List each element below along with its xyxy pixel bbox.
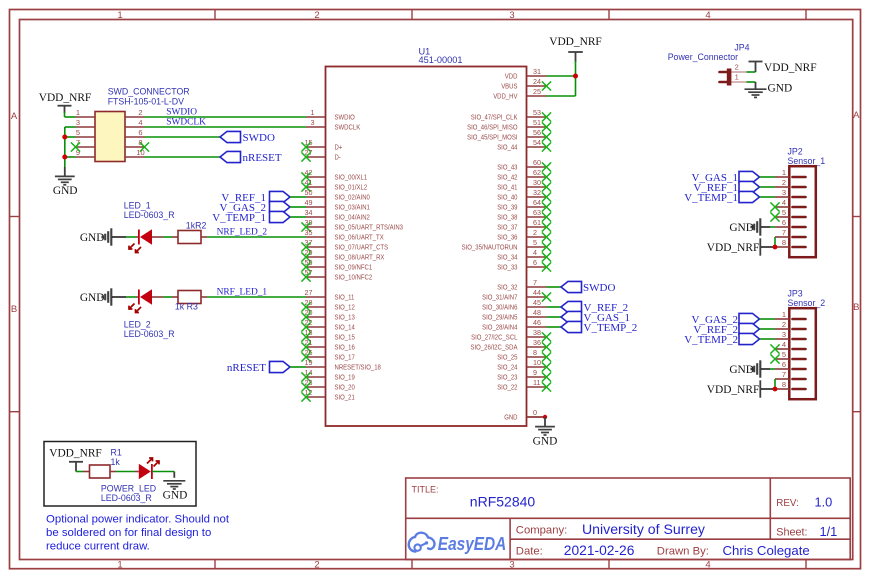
svg-text:SIO_34: SIO_34 (497, 253, 517, 262)
svg-text:1: 1 (76, 108, 80, 117)
label R1 (111, 447, 122, 457)
svg-text:NRESET/SIO_18: NRESET/SIO_18 (335, 363, 381, 372)
wire GND JP2 pin6 (770, 226, 775, 228)
label 1k (R1) (111, 457, 121, 467)
svg-text:31: 31 (533, 67, 541, 76)
svg-text:SIO_07/UART_CTS: SIO_07/UART_CTS (335, 243, 389, 252)
svg-text:36: 36 (533, 338, 541, 347)
U1 pin 14 SIO_19 (301, 368, 354, 382)
U1 pin 50 SIO_02/AIN0 (305, 188, 370, 202)
wire JP4 pin1 to GND (747, 81, 756, 83)
net label NRF_LED_2 (217, 227, 268, 237)
svg-text:SIO_45/SPI_MOSI: SIO_45/SPI_MOSI (467, 133, 517, 142)
net flag nRESET (to U1 pin 19) (227, 361, 290, 374)
svg-text:SIO_39: SIO_39 (497, 203, 517, 212)
net flag SWDO (left) (220, 131, 275, 144)
svg-text:SIO_06/UART_TX: SIO_06/UART_TX (335, 233, 384, 242)
svg-text:1k: 1k (111, 457, 121, 467)
svg-text:SIO_28/AIN4: SIO_28/AIN4 (482, 323, 517, 332)
net flag V_TEMP_1 (JP2 pin3) (684, 191, 759, 204)
svg-text:2021-02-26: 2021-02-26 (564, 543, 635, 558)
svg-text:EasyEDA: EasyEDA (438, 533, 507, 554)
U1 pin 4 SIO_34 (497, 248, 551, 262)
net flag V_TEMP_1 (to U1 pin 34) (212, 211, 290, 224)
frame row letters left (11, 111, 18, 315)
wire VDD_NRF vertical (U1) (575, 61, 577, 96)
svg-text:NRF_LED_1: NRF_LED_1 (217, 287, 268, 297)
svg-text:4: 4 (705, 10, 710, 21)
REV value 1.0 (815, 495, 833, 510)
wire JP3 pin7 to pin8 (774, 379, 776, 389)
label JP4 (734, 43, 749, 53)
U1 pin 36 SIO_26/I2C_SDA (471, 338, 552, 352)
label LED-0603_R (POWER_LED) (101, 493, 152, 503)
svg-text:35: 35 (305, 228, 313, 237)
wire SWD pin6 to SWDO flag (145, 136, 221, 138)
junction VDD_NRF JP2 (773, 245, 778, 250)
svg-text:2: 2 (314, 10, 319, 21)
svg-text:64: 64 (533, 198, 541, 207)
svg-text:10: 10 (533, 358, 541, 367)
svg-text:GND: GND (533, 436, 558, 448)
svg-text:GND: GND (163, 490, 188, 502)
svg-text:54: 54 (533, 138, 541, 147)
svg-text:5: 5 (782, 208, 786, 217)
svg-text:3: 3 (509, 10, 514, 21)
svg-text:SIO_40: SIO_40 (497, 193, 517, 202)
wire net NRF_LED_2 (207, 236, 306, 238)
svg-text:46: 46 (533, 318, 541, 327)
svg-text:FTSH-105-01-L-DV: FTSH-105-01-L-DV (108, 96, 184, 106)
REV label (776, 498, 799, 509)
net flag V_GAS_2 (JP3 pin1) (692, 313, 760, 326)
U1 pin 42 SIO_00/XL1 (301, 168, 367, 182)
svg-text:SIO_24: SIO_24 (497, 363, 517, 372)
svg-text:10: 10 (136, 148, 144, 157)
svg-text:1: 1 (782, 168, 786, 177)
svg-text:7: 7 (782, 228, 786, 237)
svg-text:University of Surrey: University of Surrey (582, 521, 706, 537)
connector SWD_CONNECTOR FTSH-105-01-L-DV (76, 108, 145, 161)
wire to SWD pin5 (65, 136, 76, 138)
U1 pin 9 SIO_23 (497, 368, 551, 382)
svg-text:2: 2 (314, 560, 319, 571)
resistor R3 1k (172, 291, 207, 304)
svg-text:7: 7 (533, 278, 537, 287)
frame column ticks top (215, 10, 806, 20)
no-connect JP2 pin4 (770, 202, 779, 211)
wire V_TEMP_1 JP2 (760, 196, 776, 198)
LED LED_1 LED-0603_R (129, 229, 163, 252)
label Sensor_2 (788, 298, 826, 308)
svg-text:25: 25 (533, 87, 541, 96)
svg-text:6: 6 (138, 128, 142, 137)
title value nRF52840 (470, 494, 536, 510)
svg-text:56: 56 (533, 128, 541, 137)
svg-text:45: 45 (533, 298, 541, 307)
EasyEDA logo (409, 533, 507, 554)
wire net NRF_LED_1 (207, 296, 306, 298)
svg-text:SIO_19: SIO_19 (335, 373, 355, 382)
svg-text:24: 24 (533, 77, 541, 86)
svg-text:V_TEMP_2: V_TEMP_2 (684, 334, 738, 346)
svg-text:32: 32 (533, 188, 541, 197)
U1 pin 18 SIO_15 (301, 328, 354, 342)
svg-text:SWDO: SWDO (583, 282, 615, 294)
U1 pin 51 SIO_46/SPI_MISO (467, 118, 551, 132)
wire nRESET (290, 366, 306, 368)
svg-text:V_TEMP_1: V_TEMP_1 (212, 212, 266, 224)
svg-text:NRF_LED_2: NRF_LED_2 (217, 227, 268, 237)
svg-text:5: 5 (782, 350, 786, 359)
wire V_GAS_1 JP2 (760, 176, 776, 178)
svg-text:SIO_32: SIO_32 (497, 283, 517, 292)
wire V_GAS_2 JP3 (760, 318, 776, 320)
wire to SWD pin9 (65, 156, 76, 158)
power flag VDD_NRF (SWD) (39, 92, 92, 113)
LED POWER_LED LED-0603_R (135, 458, 159, 479)
wire VDD_HV pin25 (547, 95, 576, 97)
U1 pin 1 SWDIO (306, 108, 355, 122)
svg-text:SIO_29/AIN5: SIO_29/AIN5 (482, 313, 517, 322)
svg-text:34: 34 (305, 208, 313, 217)
U1 pin 37 SIO_07/UART_CTS (301, 238, 388, 252)
svg-text:GND: GND (729, 222, 754, 234)
Company value University of Surrey (582, 521, 706, 537)
wire V_GAS_1 (U1 pin 48) (547, 316, 562, 318)
svg-text:1kR2: 1kR2 (186, 220, 207, 230)
note text line 2 (46, 527, 211, 539)
svg-text:SIO_33: SIO_33 (497, 263, 517, 272)
power flag VDD_NRF (JP2) (707, 238, 775, 255)
net label NRF_LED_1 (217, 287, 268, 297)
svg-text:1: 1 (311, 108, 315, 117)
Date label (516, 546, 543, 558)
U1 pin 3 SWDCLK (306, 118, 360, 132)
U1 pin 53 SIO_47/SPI_CLK (471, 108, 551, 122)
svg-text:62: 62 (533, 168, 541, 177)
svg-text:VDD_NRF: VDD_NRF (39, 92, 92, 104)
net label SWDIO (166, 107, 197, 117)
U1 pin 26 SIO_17 (301, 348, 354, 362)
svg-text:SIO_46/SPI_MISO: SIO_46/SPI_MISO (467, 123, 518, 132)
svg-text:38: 38 (533, 328, 541, 337)
U1 pin 19 NRESET/SIO_18 (305, 358, 381, 372)
U1 pin 56 SIO_45/SPI_MOSI (467, 128, 551, 142)
U1 pin 12 SIO_21 (301, 388, 354, 402)
svg-text:1/1: 1/1 (820, 524, 838, 539)
svg-text:SIO_47/SPI_CLK: SIO_47/SPI_CLK (471, 113, 518, 122)
svg-text:1: 1 (117, 560, 122, 571)
svg-text:SWDIO: SWDIO (335, 113, 355, 122)
power flag VDD_NRF (JP4) (749, 62, 817, 75)
junction U1 GND (543, 415, 547, 419)
net flag V_TEMP_2 (right of U1) (561, 321, 637, 334)
no-connect SWD pin8 (140, 142, 149, 151)
frame row ticks right (853, 217, 861, 412)
power flag VDD_NRF (JP3) (707, 380, 775, 397)
wire V_TEMP_2 (U1 pin 46) (547, 326, 562, 328)
svg-text:0: 0 (533, 408, 537, 417)
U1 pin 28 SIO_12 (301, 298, 354, 312)
label JP3 (788, 289, 803, 299)
svg-text:SIO_44: SIO_44 (497, 143, 517, 152)
svg-text:GND: GND (53, 185, 78, 197)
svg-text:61: 61 (533, 218, 541, 227)
ground GND (JP2) (729, 218, 770, 235)
svg-text:2: 2 (138, 108, 142, 117)
svg-text:LED-0603_R: LED-0603_R (101, 493, 152, 503)
svg-text:4: 4 (705, 560, 710, 571)
svg-text:GND: GND (768, 82, 793, 94)
svg-text:3: 3 (782, 330, 786, 339)
wire SWDO (U1 pin 7) (547, 286, 562, 288)
svg-text:SIO_43: SIO_43 (497, 163, 517, 172)
svg-text:nRESET: nRESET (227, 362, 266, 374)
label FTSH-105-01-L-DV (108, 96, 184, 106)
U1 pin 8 SIO_25 (497, 348, 551, 362)
U1 pin 7 SIO_32 (497, 278, 546, 292)
ground GND (note box) (163, 481, 188, 502)
svg-text:4: 4 (782, 340, 786, 349)
svg-text:TITLE:: TITLE: (412, 485, 439, 495)
wire SWD left bus vertical (64, 127, 66, 167)
svg-text:VBUS: VBUS (501, 82, 517, 91)
ground GND (LED_2) (80, 288, 111, 305)
net flag nRESET (left) (220, 151, 282, 164)
svg-text:53: 53 (533, 108, 541, 117)
power flag VDD_NRF (U1 top) (549, 36, 602, 62)
U1 pin 31 VDD (505, 67, 547, 81)
IC U1 451-00001 body (326, 67, 527, 427)
svg-text:A: A (853, 110, 860, 121)
U1 pin 21 SIO_16 (301, 338, 354, 352)
U1 pin 54 SIO_44 (497, 138, 551, 152)
ground GND (JP4) (745, 82, 793, 97)
label LED_1 (124, 200, 151, 210)
svg-text:Optional power indicator. Shou: Optional power indicator. Should not (46, 514, 230, 526)
U1 pin 27 SIO_11 (305, 288, 355, 302)
svg-text:SIO_17: SIO_17 (335, 353, 355, 362)
wire GND to LED_1 (112, 236, 136, 238)
label POWER_LED (101, 484, 156, 494)
Sheet label (776, 527, 807, 539)
svg-text:50: 50 (305, 188, 313, 197)
svg-text:GND: GND (504, 413, 518, 422)
label Sensor_1 (788, 156, 826, 166)
svg-text:Sensor_2: Sensor_2 (788, 298, 826, 308)
wire GND JP3 pin6 (770, 368, 775, 370)
wire VDD_NRF to R1 (76, 471, 83, 473)
net flag SWDO (right of U1) (561, 281, 615, 294)
svg-text:SIO_16: SIO_16 (335, 343, 355, 352)
svg-text:8: 8 (533, 348, 537, 357)
label 451-00001 (419, 55, 463, 65)
Company label (516, 524, 568, 536)
wire to SWD pin3 (65, 126, 76, 128)
U1 pin 15 D+ (301, 138, 342, 152)
svg-text:1: 1 (117, 10, 122, 21)
junction SWD pin9 (62, 155, 67, 160)
svg-text:7: 7 (782, 370, 786, 379)
note box outline (44, 442, 196, 507)
wire POWER_LED to GND (152, 472, 174, 478)
wire SWD pin10 to nRESET flag (145, 156, 221, 158)
wire VDD_NRF to SWD pin1 (65, 112, 76, 117)
svg-text:3: 3 (311, 118, 315, 127)
wire GND to LED_2 (112, 296, 136, 298)
svg-text:SIO_41: SIO_41 (497, 183, 517, 192)
U1 pin 10 SIO_24 (497, 358, 551, 372)
svg-text:B: B (853, 302, 859, 313)
svg-text:SIO_01/XL2: SIO_01/XL2 (335, 183, 368, 192)
wire U1 GND pin0 (527, 416, 546, 418)
svg-text:VDD_NRF: VDD_NRF (707, 384, 760, 396)
wire V_REF_2 (U1 pin 45) (547, 306, 562, 308)
svg-text:VDD_NRF: VDD_NRF (707, 242, 760, 254)
svg-text:6: 6 (782, 218, 786, 227)
label LED-0603_R (LED_1) (124, 210, 175, 220)
svg-text:48: 48 (533, 308, 541, 317)
svg-text:60: 60 (533, 158, 541, 167)
U1 pin 46 SIO_28/AIN4 (482, 318, 546, 332)
net flag V_GAS_1 (JP2 pin1) (692, 171, 760, 184)
label LED-0603_R (LED_2) (124, 329, 175, 339)
svg-text:GND: GND (729, 364, 754, 376)
U1 pin 23 SIO_20 (301, 378, 354, 392)
svg-text:SIO_35/NAUTORUN: SIO_35/NAUTORUN (462, 243, 518, 252)
svg-text:reduce current draw.: reduce current draw. (46, 541, 150, 553)
svg-text:Drawn By:: Drawn By: (657, 546, 709, 558)
svg-text:44: 44 (533, 288, 541, 297)
U1 pin 59 SIO_09/NFC1 (301, 258, 372, 272)
resistor R2 1k (172, 231, 207, 244)
U1 pin 34 SIO_04/AIN2 (305, 208, 370, 222)
wire net SWDIO (145, 116, 307, 118)
wire V_TEMP_1 (290, 216, 306, 218)
wire V_TEMP_2 JP3 (760, 338, 776, 340)
svg-text:B: B (11, 304, 17, 315)
wire VDD pin31 (547, 75, 576, 77)
svg-text:SWDO: SWDO (243, 132, 275, 144)
svg-text:Chris Colegate: Chris Colegate (723, 543, 810, 558)
U1 pin 60 SIO_43 (497, 158, 551, 172)
no-connect SWD pin7 (71, 142, 80, 151)
ground GND (SWD) (53, 167, 78, 197)
svg-text:4: 4 (782, 198, 786, 207)
svg-text:SIO_11: SIO_11 (335, 293, 355, 302)
U1 pin 48 SIO_29/AIN5 (482, 308, 546, 322)
wire LED_1 to R2 (163, 236, 172, 238)
connector JP2 Sensor_1 body (775, 166, 816, 257)
svg-text:1k R3: 1k R3 (175, 302, 198, 312)
net flag V_GAS_1 (right of U1) (561, 311, 630, 324)
U1 pin 32 SIO_40 (497, 188, 551, 202)
wire net SWDCLK (145, 126, 307, 128)
svg-text:6: 6 (533, 258, 537, 267)
svg-text:451-00001: 451-00001 (419, 55, 463, 65)
svg-text:SIO_21: SIO_21 (335, 393, 355, 402)
svg-text:SIO_42: SIO_42 (497, 173, 517, 182)
label 1kR2 (186, 220, 207, 230)
title block TITLE label (412, 485, 439, 495)
net flag V_REF_2 (right of U1) (561, 301, 628, 314)
svg-text:SIO_13: SIO_13 (335, 313, 355, 322)
svg-text:Sheet:: Sheet: (776, 527, 807, 539)
svg-text:4: 4 (138, 118, 142, 127)
svg-text:SIO_05/UART_RTS/AIN3: SIO_05/UART_RTS/AIN3 (335, 223, 404, 232)
svg-text:SIO_37: SIO_37 (497, 223, 517, 232)
U1 pin 61 SIO_37 (497, 218, 551, 232)
net flag V_GAS_2 (to U1 pin 49) (220, 201, 290, 214)
U1 pin 20 SIO_13 (301, 308, 354, 322)
svg-text:LED_2: LED_2 (124, 320, 151, 330)
svg-text:SIO_38: SIO_38 (497, 213, 517, 222)
junction VDD_NRF JP3 (773, 387, 778, 392)
label SWD_CONNECTOR (108, 87, 190, 97)
svg-text:SIO_00/XL1: SIO_00/XL1 (335, 173, 368, 182)
svg-text:nRF52840: nRF52840 (470, 494, 536, 510)
ground GND (JP3) (729, 360, 770, 377)
note text line 3 (46, 541, 150, 553)
svg-text:11: 11 (533, 378, 540, 387)
svg-text:SIO_20: SIO_20 (335, 383, 355, 392)
svg-text:D+: D+ (335, 143, 343, 152)
svg-text:SIO_10/NFC2: SIO_10/NFC2 (335, 273, 373, 282)
svg-text:SIO_14: SIO_14 (335, 323, 355, 332)
svg-text:A: A (11, 111, 18, 122)
svg-text:SIO_15: SIO_15 (335, 333, 355, 342)
Drawn By value Chris Colegate (723, 543, 810, 558)
net flag V_TEMP_2 (JP3 pin3) (684, 333, 759, 346)
U1 pin 39 SIO_05/UART_RTS/AIN3 (301, 218, 403, 232)
U1 pin 41 SIO_01/XL2 (301, 178, 367, 192)
U1 pin 38 SIO_27/I2C_SCL (471, 328, 551, 342)
Sheet value 1/1 (820, 524, 838, 539)
svg-text:GND: GND (80, 232, 105, 244)
svg-text:LED_1: LED_1 (124, 200, 151, 210)
svg-text:8: 8 (782, 380, 786, 389)
resistor R1 1k (83, 465, 116, 478)
U1 pin 6 SIO_33 (497, 258, 551, 272)
svg-text:49: 49 (305, 198, 313, 207)
svg-text:SIO_25: SIO_25 (497, 353, 517, 362)
U1 pin 2 SIO_36 (497, 228, 551, 242)
svg-text:6: 6 (782, 360, 786, 369)
svg-text:4: 4 (533, 248, 537, 257)
svg-text:SIO_09/NFC1: SIO_09/NFC1 (335, 263, 373, 272)
svg-text:SIO_22: SIO_22 (497, 383, 517, 392)
svg-text:VDD_NRF: VDD_NRF (49, 448, 102, 460)
svg-text:8: 8 (782, 238, 786, 247)
svg-text:SWDCLK: SWDCLK (335, 123, 361, 132)
svg-text:Date:: Date: (516, 546, 543, 558)
svg-text:5: 5 (76, 128, 80, 137)
svg-text:3: 3 (782, 188, 786, 197)
note text line 1 (46, 514, 230, 526)
wire JP4 pin2 to VDD_NRF (747, 71, 756, 73)
wire R1 to POWER_LED (116, 471, 135, 473)
Drawn By label (657, 546, 709, 558)
svg-text:1: 1 (782, 310, 786, 319)
svg-text:SIO_30/AIN6: SIO_30/AIN6 (482, 303, 517, 312)
svg-text:VDD_HV: VDD_HV (493, 92, 517, 101)
svg-text:D-: D- (335, 153, 342, 162)
svg-text:LED-0603_R: LED-0603_R (124, 329, 175, 339)
net flag V_REF_1 (JP2 pin2) (693, 181, 759, 194)
Date value 2021-02-26 (564, 543, 635, 558)
frame column numbers bottom (117, 560, 710, 571)
